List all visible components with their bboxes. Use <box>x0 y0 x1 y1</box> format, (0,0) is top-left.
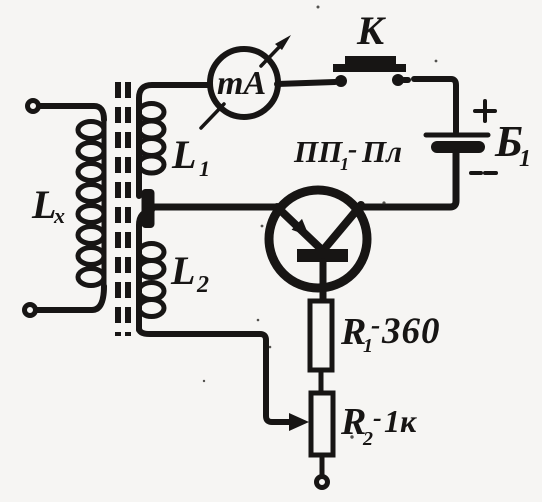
wire meter to switch K <box>277 82 335 84</box>
label mA <box>217 65 266 102</box>
plus sign <box>475 101 495 121</box>
svg-text:х: х <box>53 203 65 228</box>
label K <box>356 8 386 53</box>
svg-text:L: L <box>171 132 196 177</box>
minus sign <box>471 171 496 175</box>
wire battery to transistor collector side <box>363 153 456 207</box>
wiper arrowhead into R2 <box>289 413 309 431</box>
svg-text:L: L <box>31 182 56 227</box>
battery B1 <box>426 135 488 147</box>
svg-text:1: 1 <box>199 156 210 181</box>
svg-text:2: 2 <box>196 272 209 298</box>
wire L2 bottom to R2 wiper <box>139 328 291 422</box>
svg-text:-: - <box>348 134 357 165</box>
switch K (push button) <box>333 56 406 87</box>
terminal X1 (top-left input) <box>28 101 39 112</box>
label B1 <box>494 117 531 172</box>
label L1 <box>171 132 210 181</box>
label PP1-PL <box>293 134 402 174</box>
wire Lx bottom to terminal X2 <box>37 286 104 310</box>
svg-text:Пл: Пл <box>361 134 402 169</box>
coil Lx (left winding, 8 loops) <box>78 118 104 290</box>
coil L1 (upper secondary, 4 loops) with top lead to meter <box>139 85 211 196</box>
wire terminal X1 to Lx top <box>40 106 104 120</box>
node: center tap junction of L1/L2 <box>142 189 155 228</box>
svg-text:360: 360 <box>381 311 441 352</box>
label L2 <box>170 248 209 298</box>
wire R2 to terminal X3 <box>320 455 325 475</box>
terminal X3 (bottom output) <box>317 477 328 488</box>
svg-text:-: - <box>371 310 380 341</box>
svg-text:L: L <box>170 248 195 293</box>
scan speckles <box>203 6 438 439</box>
wire center tap to transistor emitter side <box>148 204 278 211</box>
svg-text:ПП: ПП <box>293 134 343 169</box>
svg-text:К: К <box>356 8 386 53</box>
wire R1 to R2 <box>319 370 324 393</box>
resistor R2 (rheostat) <box>311 393 333 455</box>
svg-text:-: - <box>373 403 382 432</box>
terminal X2 (bottom-left input) <box>25 305 36 316</box>
transistor PP1-PL <box>269 190 367 301</box>
svg-text:2: 2 <box>362 428 373 450</box>
label Lx <box>31 182 65 228</box>
label R1-360 <box>340 310 441 357</box>
resistor R1 <box>310 301 332 370</box>
label R2-1k <box>340 401 417 450</box>
svg-text:тА: тА <box>217 65 266 102</box>
meter mA (milliammeter) <box>201 35 291 128</box>
svg-text:1: 1 <box>519 146 531 172</box>
coil L2 (lower secondary, 4 loops) <box>139 210 164 330</box>
svg-text:1к: 1к <box>384 403 417 439</box>
transformer core (double dashed line) <box>118 82 128 336</box>
wire switch to battery <box>404 79 456 132</box>
